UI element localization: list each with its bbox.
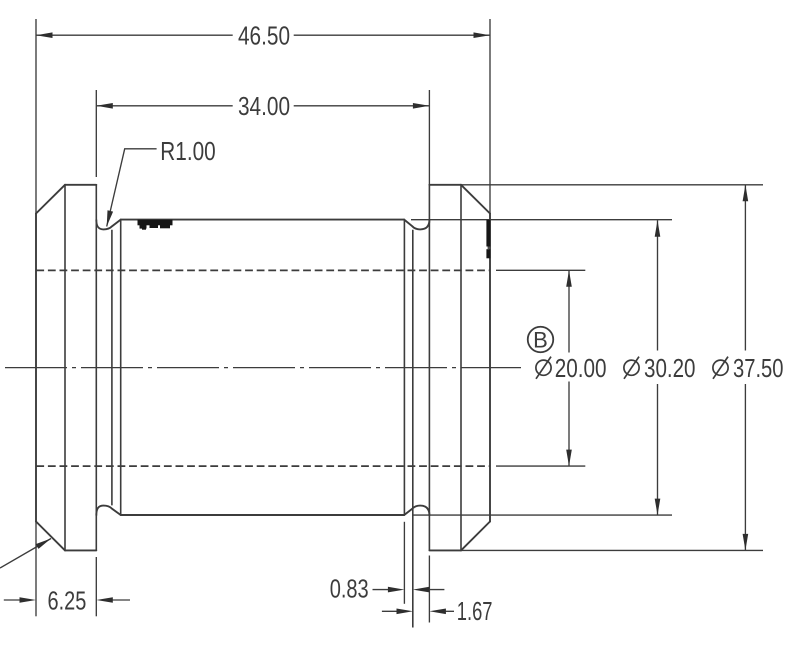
flange bottom right <box>429 549 461 551</box>
arrow chamfer leader <box>36 539 51 549</box>
centerline <box>5 367 521 369</box>
arrow dia20 up <box>566 270 572 287</box>
ext 1.67 right <box>428 556 430 623</box>
dim line 6.25 tails <box>4 599 20 601</box>
arrow dia20 down <box>566 450 572 467</box>
leader chamfer bottom-left <box>0 539 51 569</box>
groove bottom left <box>96 506 120 516</box>
leader R1.00 <box>107 149 157 227</box>
chamfer edge right <box>460 185 462 551</box>
ext 6.25 left <box>35 522 37 617</box>
black mark left (smudged stamp) <box>138 220 173 230</box>
arrow dia30.2 down <box>655 499 661 515</box>
chamfer edge left <box>64 185 66 551</box>
flange face left <box>95 185 97 551</box>
flange top right <box>429 184 461 186</box>
body edge left <box>120 220 122 515</box>
ext dia20 top <box>496 269 585 271</box>
ext dia37.5 bottom <box>461 549 763 551</box>
ext 6.25 right <box>95 557 97 616</box>
part outline <box>36 185 490 551</box>
left chamfer top <box>36 185 65 214</box>
ext dia20 bottom <box>496 465 585 467</box>
body edge right <box>403 220 405 515</box>
groove bottom right <box>404 506 429 516</box>
arrow R1.00 leader <box>107 210 113 226</box>
svg-text:30.20: 30.20 <box>644 355 696 383</box>
dim line 46.50 <box>36 34 233 36</box>
dia symbol 37.5 <box>713 357 728 379</box>
dim line dia37.5 <box>744 185 746 351</box>
svg-text:R1.00: R1.00 <box>160 138 215 166</box>
arrow 0.83 left <box>388 587 405 593</box>
left chamfer bottom <box>36 522 65 551</box>
dim line 0.83 tails <box>373 589 390 591</box>
black mark right (thick bar on right face) <box>486 220 490 258</box>
arrow 46.50 right <box>474 32 491 38</box>
ext dia37.5 top <box>461 184 763 186</box>
ext dia30.2 bottom <box>414 514 673 516</box>
arrow 6.25 right <box>96 597 113 603</box>
ext dia30.2 top <box>411 219 672 221</box>
ext 46.50 left <box>35 19 37 214</box>
right chamfer bottom <box>461 522 490 551</box>
tangent edge circles (verticals) <box>65 185 461 628</box>
arrow dia37.5 down <box>743 534 749 551</box>
flange bottom left <box>65 549 96 551</box>
groove tangent right <box>412 230 414 628</box>
ext 46.50 right <box>489 19 491 214</box>
right end face <box>489 214 491 522</box>
arrow 34.00 left <box>96 103 113 109</box>
right chamfer top <box>461 185 490 214</box>
flange top left <box>65 184 96 186</box>
dia symbol 20 <box>536 357 551 379</box>
arrow 34.00 right <box>413 103 430 109</box>
arrow 0.83 right <box>413 587 430 593</box>
flange face right <box>428 185 430 551</box>
hidden line bore bottom <box>36 465 489 467</box>
arrow 1.67 left <box>397 609 414 615</box>
groove top right <box>404 220 429 230</box>
dim line 34.00 <box>96 105 232 107</box>
dim line 1.67 tails <box>382 610 398 612</box>
svg-text:0.83: 0.83 <box>330 576 369 604</box>
dia symbol 30.2 <box>624 357 639 379</box>
arrow 1.67 right <box>429 609 446 615</box>
arrow 46.50 left <box>36 32 53 38</box>
ext 34.00 left <box>95 90 97 177</box>
dim line dia20 <box>568 270 570 352</box>
groove top left <box>96 220 120 230</box>
datum circle B <box>528 327 554 353</box>
svg-text:6.25: 6.25 <box>48 588 87 616</box>
svg-text:B: B <box>533 327 548 352</box>
arrow dia37.5 up <box>743 185 749 202</box>
svg-text:34.00: 34.00 <box>238 93 290 121</box>
svg-text:20.00: 20.00 <box>555 355 607 383</box>
arrow 6.25 left <box>20 597 37 603</box>
groove tangent left <box>111 230 113 506</box>
ext 0.83 left <box>403 522 405 604</box>
svg-text:37.50: 37.50 <box>733 355 784 383</box>
svg-text:46.50: 46.50 <box>238 22 290 50</box>
arrow dia30.2 up <box>655 220 661 237</box>
ext 34.00 right <box>428 90 430 185</box>
left end face <box>35 214 37 522</box>
hidden line bore top <box>36 269 489 271</box>
body bottom <box>121 514 405 516</box>
svg-text:1.67: 1.67 <box>457 598 493 626</box>
body top <box>121 219 405 221</box>
dim line dia30.2 <box>657 220 659 350</box>
